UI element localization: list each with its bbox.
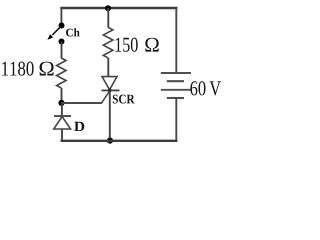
wire: bottom rail xyxy=(61,140,178,142)
wire: 150 ohm branch from top rail xyxy=(107,8,109,28)
wire: right branch down to battery positive plate xyxy=(175,8,177,73)
label D xyxy=(74,122,84,131)
wire: resistor 1180 down to gate node xyxy=(61,88,63,103)
wire: gate diagonal into SCR cathode bar xyxy=(101,90,110,103)
wire: resistor 150 down to SCR anode xyxy=(107,58,109,77)
resistor R1 1180 ohm zigzag xyxy=(57,58,66,88)
label 60 V value xyxy=(190,81,221,95)
wire: gate horizontal run xyxy=(62,102,102,104)
resistor R2 150 ohm zigzag xyxy=(103,27,113,58)
label SCR xyxy=(113,95,135,104)
battery B1 (four plates) xyxy=(161,73,191,98)
switch Ch (open knife switch with arrow blade) xyxy=(47,23,64,45)
SCR thyristor (triangle down onto cathode bar, gate at lower left) xyxy=(102,77,120,141)
wire: battery negative down to bottom rail xyxy=(175,98,177,141)
wire: top rail xyxy=(60,7,177,9)
label Ch xyxy=(66,28,80,36)
label 1180 ohm value xyxy=(2,62,54,76)
wire: top-left corner down to switch xyxy=(60,7,62,26)
node: junction resistor / diode / SCR gate xyxy=(58,100,64,106)
diode D (anode below, cathode bar above, triangle pointing up) xyxy=(54,103,71,141)
node: junction of 150 ohm branch on top rail xyxy=(105,5,111,11)
wire: switch to resistor 1180 xyxy=(61,42,63,59)
node: SCR cathode junction on bottom rail xyxy=(107,138,113,144)
label 150 ohm value xyxy=(116,38,159,52)
